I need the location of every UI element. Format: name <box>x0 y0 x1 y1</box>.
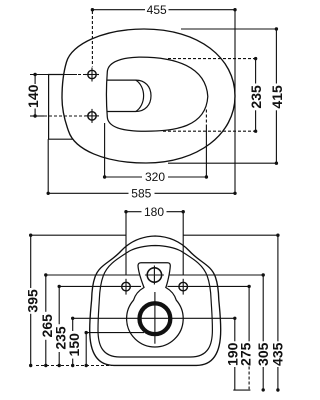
svg-text:395: 395 <box>24 289 40 313</box>
svg-text:455: 455 <box>147 3 167 17</box>
svg-text:140: 140 <box>25 84 41 108</box>
svg-text:150: 150 <box>66 333 82 357</box>
svg-text:435: 435 <box>270 342 286 366</box>
svg-text:585: 585 <box>131 187 151 201</box>
svg-text:275: 275 <box>238 342 254 366</box>
svg-text:235: 235 <box>248 85 264 109</box>
svg-text:305: 305 <box>255 342 271 366</box>
svg-text:415: 415 <box>269 85 285 109</box>
svg-text:320: 320 <box>145 170 165 184</box>
svg-text:180: 180 <box>144 205 164 219</box>
